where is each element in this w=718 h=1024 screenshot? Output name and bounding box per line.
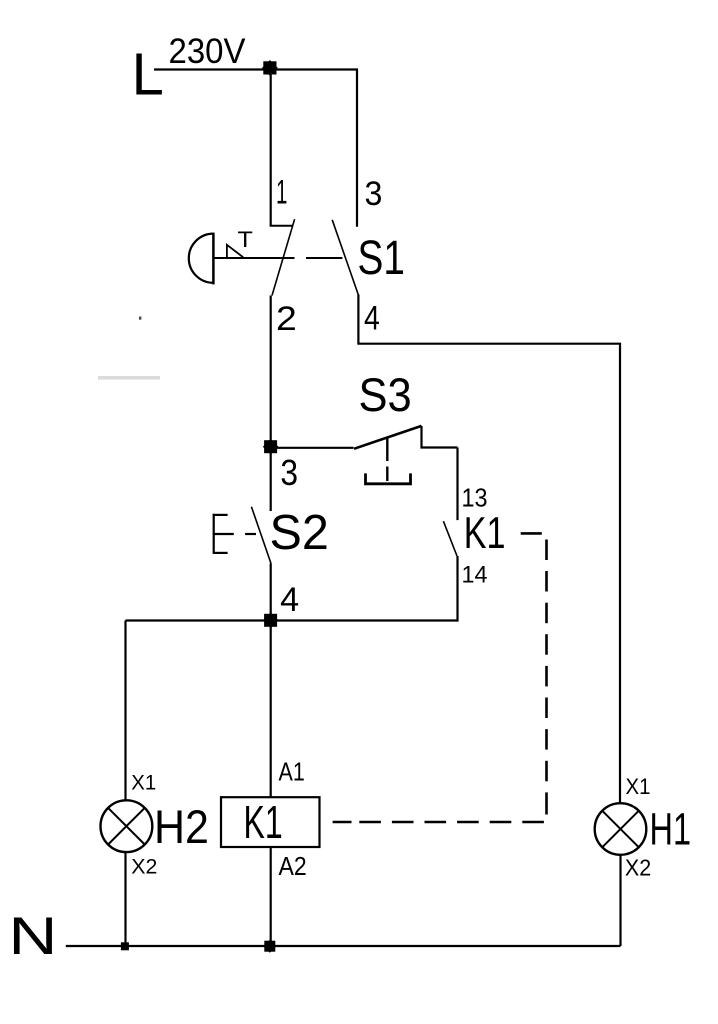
wire S2 fixed side <box>270 447 272 511</box>
wire S3 to contact 13 <box>456 448 458 521</box>
wire contact 14 down <box>456 556 458 622</box>
svg-text:X2: X2 <box>131 856 157 879</box>
svg-text:1: 1 <box>276 174 287 212</box>
svg-text:X1: X1 <box>626 774 651 799</box>
svg-text:3: 3 <box>365 175 383 213</box>
svg-text:X2: X2 <box>625 855 651 881</box>
contact K1 blade <box>443 521 457 556</box>
switch S1 left blade <box>272 219 295 295</box>
lamp H1 <box>595 803 647 855</box>
svg-text:K1: K1 <box>464 509 506 558</box>
lamp H2 <box>101 800 153 852</box>
svg-text:H2: H2 <box>154 800 209 853</box>
node junction 4 <box>264 614 277 627</box>
svg-text:S2: S2 <box>270 506 329 560</box>
svg-text:S3: S3 <box>359 369 412 422</box>
S2 actuator dash <box>245 533 256 535</box>
wire horizontal junction row <box>126 619 458 621</box>
svg-text:A1: A1 <box>279 757 305 787</box>
wire lamp H2 lower <box>124 852 126 946</box>
wire N horizontal <box>66 945 621 947</box>
wire lamp H2 branch upper <box>124 621 126 801</box>
svg-text:4: 4 <box>280 581 299 619</box>
S3 right terminal hook <box>422 426 458 448</box>
wire from L corner down to S1 pin 3 <box>356 70 358 227</box>
switch S2 blade <box>251 507 271 564</box>
svg-text:14: 14 <box>462 562 488 589</box>
node junction of pin2 / S3 / S2 <box>264 440 277 453</box>
relay coil K1 box <box>221 797 320 847</box>
svg-text:T: T <box>238 227 254 252</box>
svg-text:K1: K1 <box>244 796 283 848</box>
wire relay coil lower <box>270 847 272 946</box>
svg-text:L: L <box>132 42 164 108</box>
wire relay coil branch upper <box>270 621 272 798</box>
svg-text:N: N <box>8 907 57 966</box>
dashed mechanical link coil K1 to contact K1 <box>333 533 547 822</box>
svg-text:H1: H1 <box>650 804 692 855</box>
node N / H2 junction <box>121 942 129 950</box>
wire lamp H1 lower <box>619 855 621 946</box>
S1 delay triangle <box>227 245 243 258</box>
wire junction to S3 <box>271 447 354 449</box>
scan artifact streak <box>98 376 160 380</box>
svg-text:2: 2 <box>276 300 297 338</box>
node N / K1 junction <box>264 941 275 952</box>
svg-text:230V: 230V <box>169 32 247 71</box>
switch S1 right blade <box>332 220 358 295</box>
S1 mechanical actuator link <box>214 257 295 259</box>
node junction on L wire <box>263 61 276 74</box>
wire S1 pin 1 vertical <box>270 70 272 227</box>
svg-text:X1: X1 <box>131 772 156 795</box>
svg-text:3: 3 <box>280 453 298 493</box>
wire S1 pin 2 vertical <box>270 296 272 449</box>
svg-text:4: 4 <box>364 300 380 338</box>
pushbutton S3 blade <box>354 426 422 449</box>
wire S1 pin4 across top to lamp H1 branch <box>357 344 620 804</box>
wire L horizontal <box>154 68 358 70</box>
S2 manual actuator (E symbol) <box>213 514 234 554</box>
pin 1 contact seat <box>270 225 293 227</box>
scan artifact dot <box>139 317 141 320</box>
wire S2 bottom side <box>270 564 272 622</box>
wire S1 pin 4 vertical <box>357 295 359 344</box>
S3 actuator stem (dashed) <box>386 438 388 461</box>
pushbutton head of S1 (half circle) <box>189 234 214 283</box>
svg-text:A2: A2 <box>279 851 307 881</box>
svg-text:S1: S1 <box>358 231 405 285</box>
S3 push bracket <box>366 473 411 483</box>
